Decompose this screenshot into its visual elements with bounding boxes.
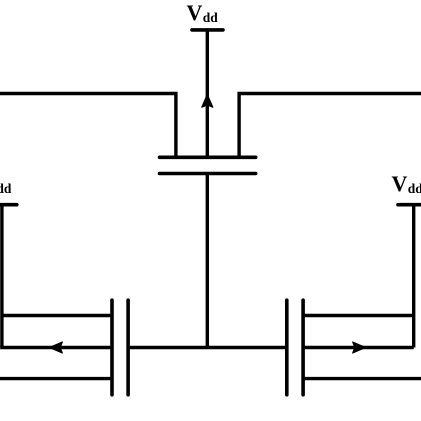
transistor M1 channel bar [160, 156, 256, 160]
svg-text:V: V [392, 171, 408, 196]
supply bar Vdd (top) [192, 28, 223, 32]
svg-text:dd: dd [0, 181, 12, 196]
arrow right on M3 middle terminal [353, 342, 366, 353]
transistor M3 channel bar [301, 300, 305, 395]
wire right rail to M1 source [239, 94, 421, 158]
wire M1 gate to common gate node [206, 174, 209, 348]
label Vdd (right supply, clipped) [392, 171, 421, 196]
supply bar Vdd (left) [0, 203, 17, 207]
wire right Vdd down [412, 206, 415, 348]
label Vdd (left supply, clipped) [0, 171, 12, 196]
wire M2 middle terminal [0, 346, 112, 349]
supply bar Vdd (right) [398, 203, 421, 207]
svg-text:dd: dd [408, 181, 421, 196]
transistor M1 gate bar [160, 172, 256, 176]
transistor M2 channel bar [110, 300, 114, 395]
transistor M3 gate bar [285, 300, 289, 395]
wire M3 middle terminal [303, 346, 414, 349]
svg-text:V: V [187, 0, 203, 25]
svg-text:dd: dd [203, 10, 219, 25]
wire M3 bottom terminal [303, 377, 421, 380]
wire left rail to M1 drain [0, 94, 176, 158]
wire common gate net [128, 346, 287, 349]
transistor M2 gate bar [126, 300, 130, 395]
wire M2 bottom terminal [0, 377, 112, 380]
arrow up on Vdd wire [202, 95, 213, 108]
wire left Vdd down [0, 206, 3, 348]
wire Vdd to M1 channel center [206, 31, 209, 157]
wire M2 top terminal [2, 314, 112, 317]
arrow left on M2 middle terminal [49, 342, 62, 353]
wire M3 top terminal [303, 314, 414, 317]
label Vdd (top supply) [187, 0, 219, 25]
